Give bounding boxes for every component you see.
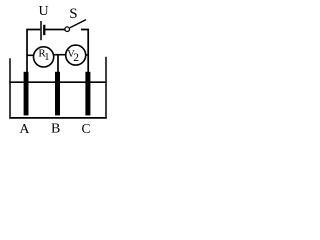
svg-text:S: S: [69, 6, 77, 22]
wire: tick from V2 to right riser: [85, 54, 88, 56]
tank right wall: [105, 57, 107, 119]
liquid surface line: [9, 81, 106, 83]
switch lever (open): [70, 20, 86, 28]
switch S pivot circle: [65, 27, 70, 32]
wire: battery to switch pivot: [45, 29, 64, 31]
svg-text:1: 1: [44, 52, 49, 63]
electrode B: [55, 72, 60, 116]
electrode C: [85, 72, 90, 116]
wire: left riser from electrode A up, then top run to battery: [27, 30, 40, 73]
svg-text:2: 2: [73, 52, 79, 64]
electrode A: [24, 72, 29, 116]
wire: fixed contact, corner, right riser down to electrode C: [81, 30, 88, 73]
wire: R1 to V2: [54, 54, 67, 56]
battery U short thick plate: [43, 25, 45, 35]
ammeter/resistor circle R1: [34, 47, 54, 67]
svg-text:B: B: [51, 122, 60, 137]
battery U long plate: [40, 21, 42, 40]
svg-text:A: A: [19, 122, 30, 137]
svg-text:U: U: [39, 4, 49, 19]
tank bottom: [9, 117, 106, 119]
wire: middle drop to electrode B: [57, 55, 59, 72]
wire: tick from left riser to R1: [27, 54, 34, 56]
tank left wall: [9, 58, 11, 118]
svg-text:C: C: [81, 121, 90, 136]
voltmeter circle V2: [66, 45, 86, 65]
